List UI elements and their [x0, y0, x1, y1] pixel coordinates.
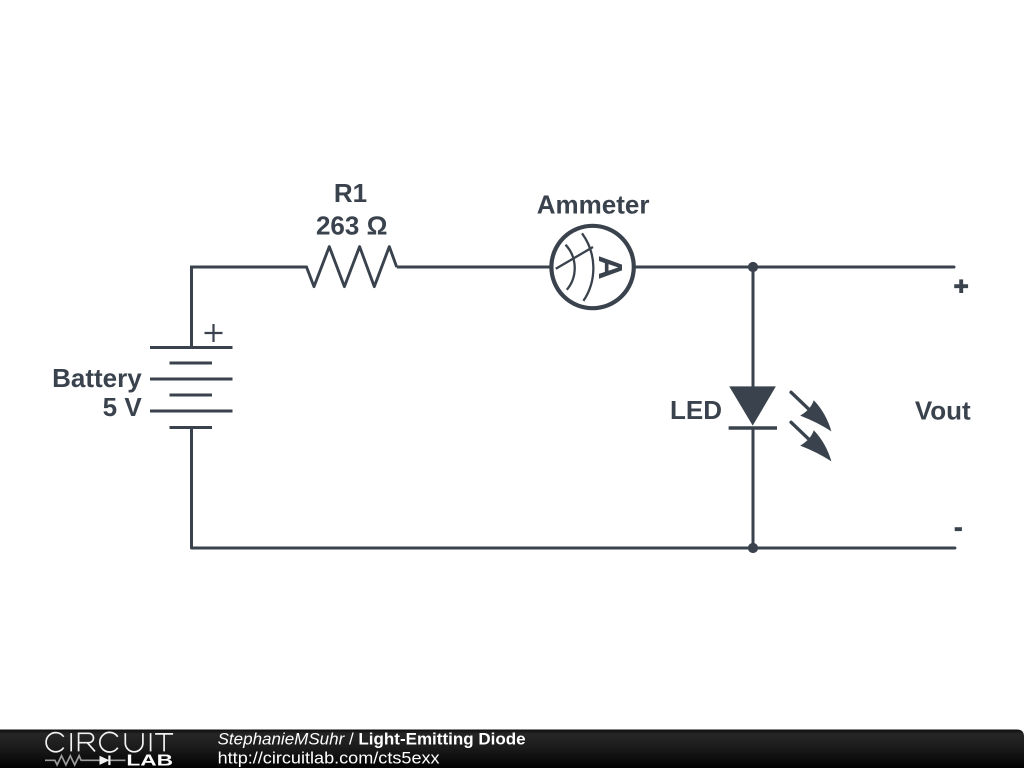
- svg-text:5 V: 5 V: [103, 392, 143, 422]
- ammeter U1 circle: [551, 226, 633, 308]
- battery plate short 2: [170, 394, 213, 397]
- battery plate short 1: [170, 362, 213, 365]
- battery plate long 2: [150, 378, 233, 381]
- wire resistor to ammeter: [397, 266, 552, 269]
- svg-text:263 Ω: 263 Ω: [316, 211, 387, 241]
- logo letter T: [155, 734, 173, 752]
- LED emission arrow 1 head: [800, 400, 831, 431]
- LED D1 triangle: [730, 387, 775, 425]
- svg-text:StephanieMSuhr / Light-Emittin: StephanieMSuhr / Light-Emitting Diode: [218, 729, 526, 748]
- LED branch wire lower: [752, 428, 755, 548]
- wire ammeter to right terminal +: [634, 266, 954, 269]
- LED emission arrow 2 head: [800, 430, 831, 461]
- resistor R1: [307, 247, 397, 287]
- footer bar: [0, 730, 1024, 768]
- svg-text:A: A: [591, 255, 628, 279]
- logo resistor-diode line: [45, 756, 126, 765]
- svg-text:Ammeter: Ammeter: [537, 189, 650, 219]
- LED emission arrow 1 shaft: [791, 392, 811, 411]
- junction node bottom: [748, 543, 758, 553]
- LED branch wire upper: [752, 267, 755, 387]
- wire battery plus to top-left corner and to resistor: [192, 267, 307, 348]
- logo letter R: [79, 733, 95, 751]
- ammeter scale arc outer: [582, 233, 593, 301]
- ammeter scale arc inner: [566, 245, 575, 290]
- battery plate long 3: [150, 410, 233, 413]
- terminal minus sign: [955, 527, 962, 531]
- wire battery minus down to bottom rail: [190, 428, 193, 549]
- logo diode bar: [108, 756, 110, 766]
- LED cathode bar: [729, 426, 777, 430]
- logo letter C2: [100, 732, 118, 752]
- svg-text:LED: LED: [670, 395, 722, 425]
- battery plate long 1: [150, 346, 233, 349]
- LED emission arrow 2 shaft: [791, 422, 811, 441]
- junction node top: [748, 262, 758, 272]
- svg-text:http://circuitlab.com/cts5exx: http://circuitlab.com/cts5exx: [218, 749, 441, 768]
- svg-text:LAB: LAB: [126, 753, 173, 768]
- svg-text:Battery: Battery: [52, 363, 142, 393]
- ammeter needle: [556, 247, 593, 269]
- logo CIRCUIT letter C1: [46, 732, 173, 752]
- terminal plus sign: [954, 279, 968, 293]
- bottom rail wire: [192, 547, 955, 550]
- svg-text:R1: R1: [334, 178, 367, 208]
- svg-text:Vout: Vout: [915, 396, 971, 426]
- battery plus marker: [205, 324, 223, 342]
- battery plate short 3: [170, 426, 213, 429]
- logo letter I1: [70, 733, 72, 751]
- logo diode triangle: [100, 756, 110, 765]
- logo letter U: [125, 733, 143, 752]
- logo letter I2: [150, 733, 152, 751]
